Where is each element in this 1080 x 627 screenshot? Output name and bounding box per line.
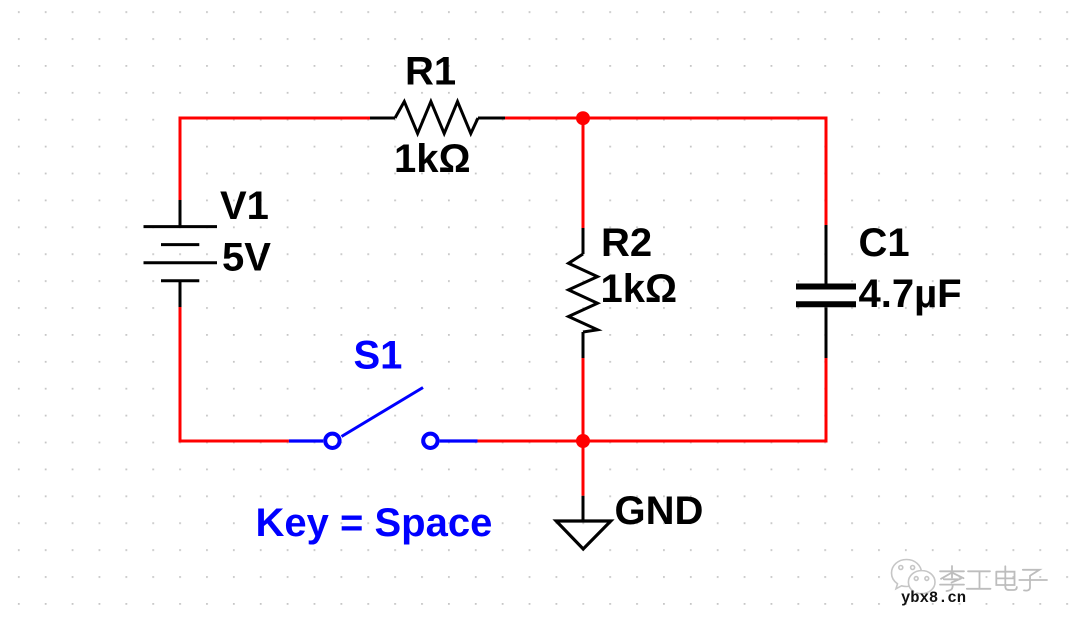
wire battery negative to switch S1 left (red)	[180, 307, 289, 441]
wire node B to C1 bottom (red)	[583, 358, 826, 441]
svg-text:4.7µF: 4.7µF	[859, 272, 962, 316]
svg-text:R2: R2	[601, 221, 652, 265]
svg-text:Key = Space: Key = Space	[256, 501, 493, 545]
svg-text:1kΩ: 1kΩ	[601, 267, 678, 311]
svg-text:ybx8.cn: ybx8.cn	[901, 589, 966, 607]
resistor R2	[569, 228, 598, 358]
watermark wechat icon	[892, 560, 936, 596]
svg-text:5V: 5V	[222, 236, 271, 280]
svg-text:V1: V1	[220, 184, 269, 228]
svg-text:C1: C1	[859, 221, 910, 265]
svg-text:R1: R1	[405, 50, 456, 94]
watermark text 李工电子 (simplified strokes)	[940, 566, 1047, 591]
svg-text:1kΩ: 1kΩ	[394, 137, 471, 181]
wire node A to C1 top (red)	[583, 118, 826, 225]
wire node B to ground (red)	[582, 441, 585, 496]
wire R2 bottom to node B (red)	[582, 358, 585, 441]
wire battery positive to R1 left (red)	[180, 118, 370, 200]
node B junction dot	[576, 434, 590, 448]
wire switch S1 right to node B (red)	[478, 440, 584, 443]
resistor R1	[370, 102, 505, 134]
battery V1 symbol	[144, 200, 218, 307]
switch S1	[289, 388, 478, 448]
ground	[556, 496, 611, 549]
svg-text:S1: S1	[354, 333, 403, 377]
wire R1 right to node A (red)	[505, 117, 583, 120]
svg-text:GND: GND	[615, 489, 704, 533]
wire node A to R2 top (red)	[582, 118, 585, 228]
node A junction dot	[576, 111, 590, 125]
capacitor C1	[796, 225, 856, 358]
